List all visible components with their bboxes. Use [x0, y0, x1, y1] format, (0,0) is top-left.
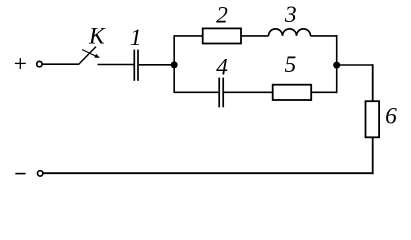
- wire capacitor C1 to node A: [139, 64, 174, 66]
- svg-text:6: 6: [385, 104, 397, 130]
- right riser wire (node B vertical): [336, 35, 338, 93]
- wire terminal to switch: [42, 63, 79, 65]
- svg-text:1: 1: [130, 25, 142, 51]
- wire node A to resistor R2: [173, 35, 203, 37]
- resistor R5 (label 5): [273, 85, 312, 100]
- node B junction dot: [333, 62, 340, 69]
- svg-text:2: 2: [216, 2, 228, 28]
- plus terminal label: [15, 58, 26, 69]
- wire switch to capacitor C1: [98, 64, 134, 66]
- wire L3 to top-right corner: [311, 35, 338, 37]
- wire down to resistor R6: [372, 64, 374, 101]
- capacitor C1 (label 1): [134, 50, 138, 81]
- wire R5 to node B: [311, 91, 337, 93]
- resistor R2 (label 2): [203, 28, 241, 43]
- terminal (+) circle: [37, 61, 42, 66]
- switch K arrow: [82, 50, 100, 58]
- wire R2 to inductor L3: [241, 35, 269, 37]
- bottom return wire: [43, 172, 373, 174]
- wire node B to right branch: [337, 64, 373, 66]
- minus terminal label: [15, 173, 25, 175]
- svg-text:3: 3: [284, 2, 297, 28]
- node A junction dot: [171, 61, 178, 68]
- terminal (-) circle: [38, 171, 43, 176]
- svg-text:4: 4: [216, 55, 228, 81]
- inductor L3 (label 3): [269, 29, 311, 36]
- wire node A to capacitor C4: [173, 91, 218, 93]
- resistor R6 (label 6): [366, 101, 380, 137]
- capacitor C4 (label 4): [219, 78, 223, 108]
- switch K blade: [79, 47, 96, 65]
- svg-text:К: К: [88, 24, 106, 50]
- svg-text:5: 5: [285, 52, 297, 78]
- wire C4 to resistor R5: [224, 91, 274, 93]
- left riser wire (node A vertical): [173, 36, 175, 92]
- wire R6 down to bottom corner: [372, 137, 374, 174]
